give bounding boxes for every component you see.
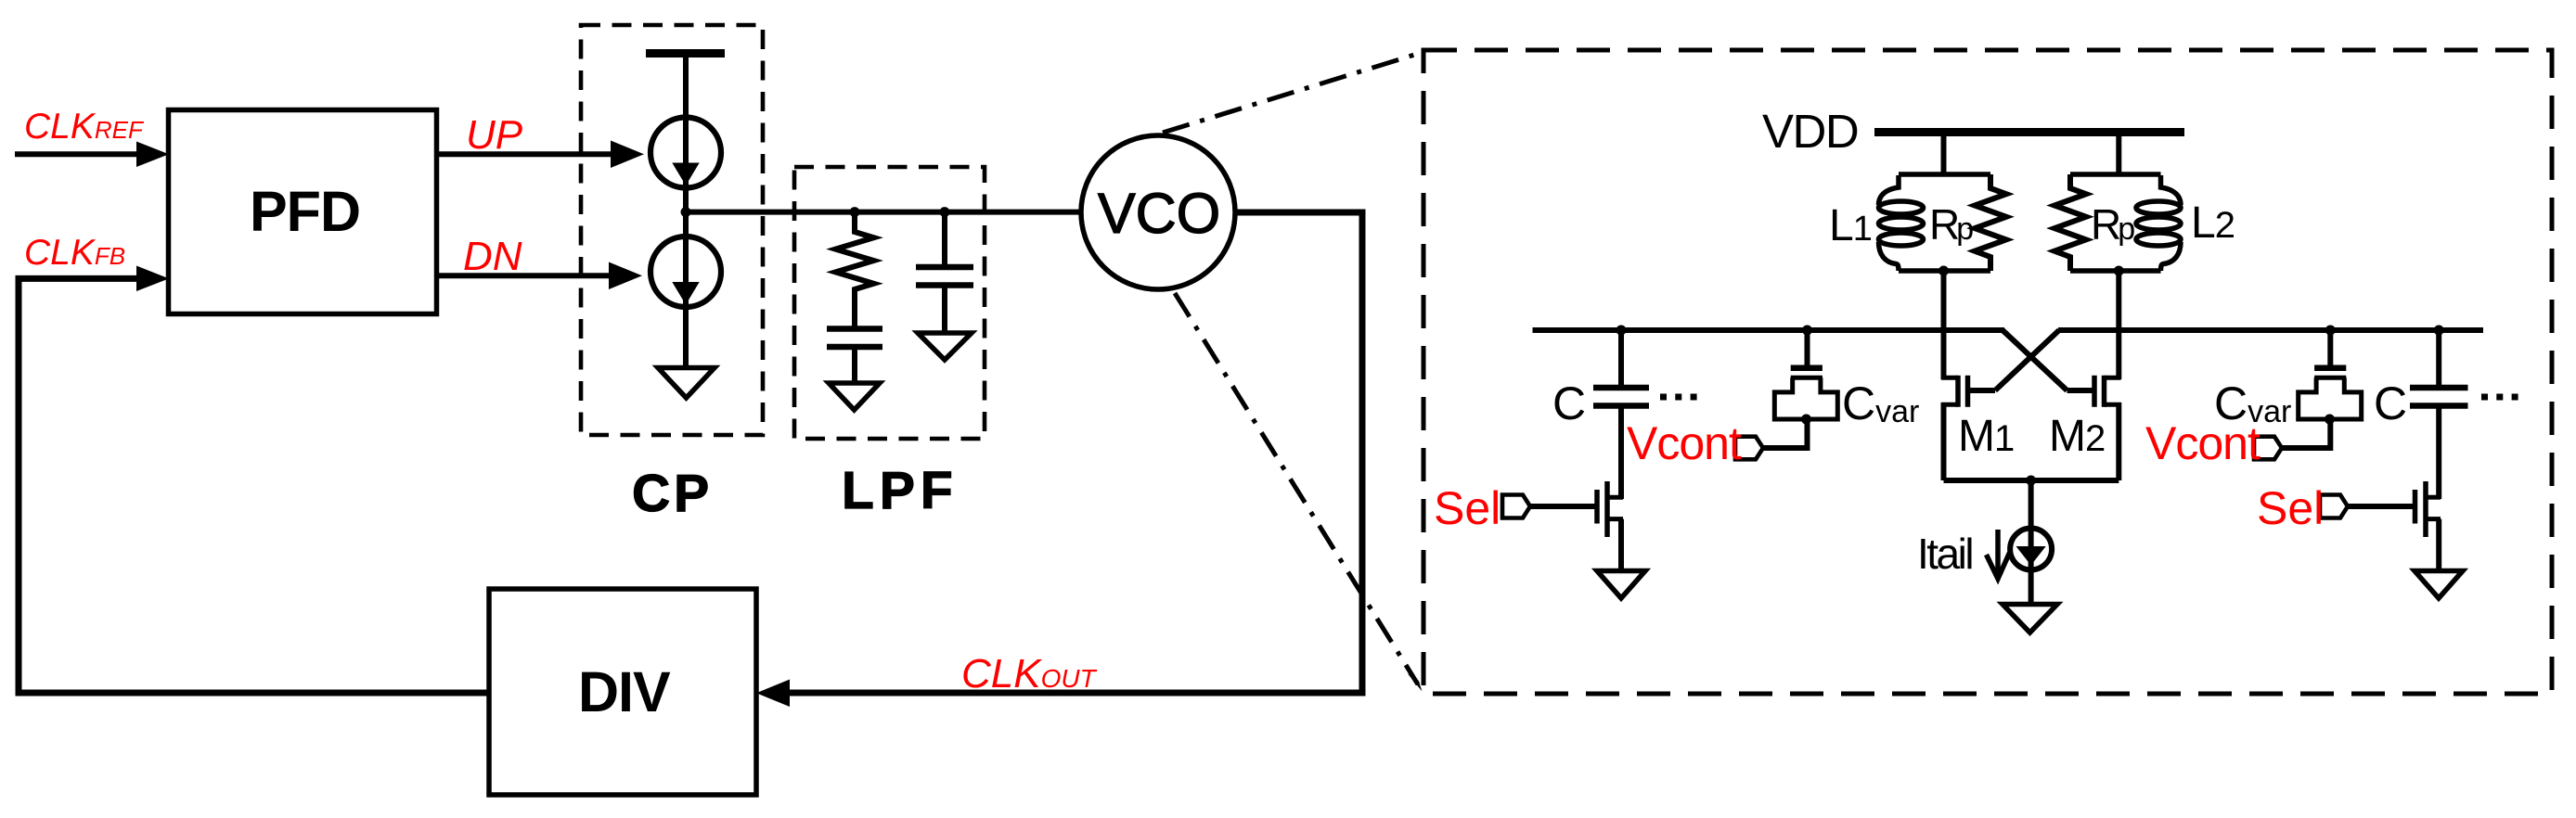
svg-text:Vcont: Vcont (1627, 417, 1742, 469)
wire tank1 to M1 drain (1941, 271, 1947, 379)
block PFD (169, 110, 437, 314)
transistor Sel right (2348, 481, 2441, 537)
dashed box VCO detail (1423, 50, 2552, 694)
dashed box CP (581, 25, 763, 435)
pin Vcont right (2254, 437, 2282, 460)
wire CP column (683, 58, 689, 368)
tank1 top bar (1899, 172, 1990, 177)
wire M2 source (2116, 403, 2121, 480)
svg-text:DIV: DIV (578, 660, 671, 723)
arrowhead zoom line lower (1408, 674, 1423, 692)
current source I-UP (650, 118, 721, 188)
ground LPF R branch (829, 383, 880, 410)
svg-text:Cvar: Cvar (1842, 377, 1919, 429)
ground Sel left (1597, 571, 1645, 599)
block DIV (489, 589, 756, 795)
node bus Cvar right (2325, 326, 2336, 336)
node LPF C branch (940, 207, 950, 217)
svg-text:Itail: Itail (1917, 530, 1972, 578)
wire CLKREF input (15, 151, 139, 157)
dots more-caps left (1660, 394, 1697, 401)
wire VCO output (790, 212, 1362, 693)
pin Sel left (1502, 495, 1530, 518)
transistor M2 (2067, 376, 2121, 407)
wire Sel left source to ground (1618, 519, 1624, 569)
svg-text:Rp: Rp (2091, 200, 2135, 249)
svg-text:M1: M1 (1958, 412, 2015, 461)
capacitor LPF series (827, 326, 882, 332)
svg-text:Rp: Rp (1929, 200, 1974, 249)
svg-text:VDD: VDD (1762, 105, 1858, 158)
inductor L1 (1879, 175, 1924, 271)
svg-text:Cvar: Cvar (2214, 377, 2291, 429)
wire UP (437, 151, 612, 157)
arrowhead UP into CP (611, 141, 644, 169)
node varactor tap left (1801, 415, 1811, 425)
wire tail (2029, 480, 2034, 602)
ground CP (658, 368, 715, 399)
node tail (2026, 476, 2036, 486)
current source Itail (2010, 529, 2052, 570)
svg-text:DN: DN (463, 234, 522, 279)
wire tank2 to M2 drain (2116, 271, 2121, 379)
bus right segment (2058, 327, 2483, 333)
varactor Cvar left (1805, 330, 1810, 365)
inductor L2 (2136, 175, 2181, 271)
node varactor tap right (2325, 415, 2335, 425)
pin Vcont left (1735, 437, 1763, 460)
wire M1 source (1941, 403, 1947, 480)
resistor Rp2 (2054, 174, 2086, 271)
resistor LPF (836, 212, 874, 326)
CP supply bar (646, 49, 725, 58)
pin Sel right (2320, 495, 2348, 518)
wire VDD stub left tank (1941, 136, 1947, 176)
wire source join (1944, 478, 2119, 483)
varactor Cvar right (2327, 330, 2333, 365)
transistor Sel left (1530, 481, 1623, 537)
VDD rail (1874, 128, 2184, 136)
wire C left branch (1618, 330, 1624, 386)
node tank2 (2114, 266, 2124, 276)
ground tail (2003, 605, 2057, 633)
current source I-DN (650, 236, 721, 307)
svg-text:UP: UP (466, 112, 523, 158)
svg-text:C: C (1552, 377, 1586, 429)
svg-text:Sel: Sel (2257, 482, 2324, 534)
node bus Cvar left (1802, 326, 1812, 336)
capacitor C right (2410, 385, 2468, 391)
wire C right branch (2436, 330, 2441, 386)
svg-text:VCO: VCO (1098, 182, 1220, 245)
tank2 top bar (2070, 172, 2161, 177)
node CP output (681, 207, 691, 217)
arrowhead CLKOUT into DIV (756, 680, 790, 708)
ground LPF C branch (918, 333, 972, 360)
capacitor C left (1593, 385, 1649, 391)
capacitor LPF shunt (942, 212, 947, 267)
wire VDD stub right tank (2116, 136, 2121, 176)
svg-text:CLKFB: CLKFB (24, 233, 125, 273)
wire varactor tap to Vcont pin left (1763, 419, 1808, 448)
wire C right to Sel FET (2436, 406, 2441, 500)
arrowhead CLKREF into PFD (136, 142, 169, 168)
svg-text:CLKREF: CLKREF (24, 107, 145, 147)
wire CP to VCO (686, 210, 1082, 215)
svg-text:CLKOUT: CLKOUT (961, 651, 1098, 697)
cross-couple diagonal from left bus to M2 gate (2003, 330, 2067, 390)
dash-dot zoom line upper (1163, 52, 1423, 133)
ground Sel right (2415, 571, 2463, 599)
arrow Itail direction (1995, 530, 2001, 574)
svg-text:PFD: PFD (250, 180, 360, 243)
resistor Rp1 (1975, 174, 2006, 271)
transistor M1 (1941, 376, 1995, 407)
oscillator VCO (1081, 135, 1235, 289)
dash-dot zoom line lower (1175, 293, 1418, 684)
cross-couple diagonal from right bus to M1 gate (1995, 330, 2059, 390)
svg-text:C: C (2374, 377, 2407, 429)
dashed box LPF (794, 167, 985, 439)
svg-text:L2: L2 (2191, 198, 2235, 248)
arrowhead DN into CP (609, 262, 642, 290)
svg-text:Sel: Sel (1434, 482, 1501, 534)
wire Sel right source to ground (2436, 519, 2441, 569)
tank1 bottom bar (1899, 268, 1990, 274)
svg-text:LPF: LPF (842, 461, 959, 520)
bus left segment (1533, 327, 2005, 333)
tank2 bottom bar (2070, 268, 2161, 274)
wire varactor tap to Vcont pin right (2282, 419, 2330, 448)
wire C left to Sel FET (1618, 406, 1624, 500)
arrowhead CLKFB into PFD (136, 266, 169, 292)
node LPF R branch (850, 207, 860, 217)
svg-text:M2: M2 (2049, 412, 2106, 461)
node tank1 (1938, 266, 1949, 276)
dots more-caps right (2481, 394, 2518, 401)
svg-text:CP: CP (632, 464, 713, 523)
node bus C left (1616, 326, 1627, 336)
svg-text:L1: L1 (1829, 201, 1873, 250)
node bus C right (2434, 326, 2444, 336)
wire DN (437, 273, 611, 278)
wire CLKFB feedback (from DIV, up, to PFD input) (19, 278, 489, 693)
